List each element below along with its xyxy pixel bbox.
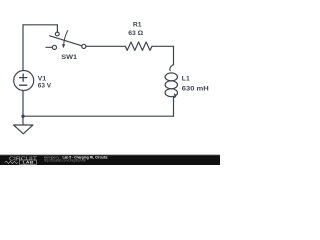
footer logo zigzag — [5, 161, 19, 163]
V1 plus sign — [20, 74, 27, 81]
ground stem — [22, 116, 24, 125]
voltage source V1 circle — [14, 71, 34, 91]
switch SW1 toggle arrow arc — [64, 31, 68, 45]
footer logo LAB box — [20, 160, 37, 164]
footer bar — [0, 155, 220, 165]
resistor R1 zigzag — [125, 42, 152, 50]
inductor L1 coil — [170, 65, 174, 71]
wire right rail down to L1 — [173, 46, 175, 64]
svg-text:LAB: LAB — [23, 161, 34, 165]
switch SW1 left throw circle — [52, 45, 56, 49]
wire L1 to bottom corner — [173, 98, 175, 117]
wire R1 to right corner — [152, 45, 174, 47]
switch SW1 right common circle — [82, 44, 86, 48]
wire SW1 to R1 — [86, 45, 125, 47]
svg-text:SW1: SW1 — [61, 54, 77, 61]
junction node — [21, 115, 24, 118]
wire top run — [23, 24, 57, 26]
V1 minus sign — [20, 84, 27, 86]
svg-text:R1: R1 — [133, 22, 142, 29]
wire V1 bottom to junction — [22, 91, 24, 117]
svg-text:V1: V1 — [38, 75, 47, 82]
wire stub down to SW1 top terminal — [56, 25, 58, 32]
wire bottom run — [23, 115, 174, 117]
svg-text:63 V: 63 V — [38, 83, 52, 90]
svg-text:http://circuitlab.com/c/kegnfs: http://circuitlab.com/c/kegnfsyb-lab — [44, 159, 86, 163]
switch SW1 toggle arrowhead — [62, 44, 65, 48]
switch SW1 blade — [50, 36, 82, 46]
ground triangle — [14, 125, 33, 134]
wire left rail top (V1 to top-left corner) — [22, 25, 24, 71]
svg-text:L1: L1 — [182, 75, 190, 82]
svg-text:630 mH: 630 mH — [182, 86, 209, 93]
switch SW1 top terminal circle — [55, 32, 59, 36]
svg-text:63 Ω: 63 Ω — [128, 30, 143, 37]
switch SW1 left throw stub — [46, 46, 52, 48]
